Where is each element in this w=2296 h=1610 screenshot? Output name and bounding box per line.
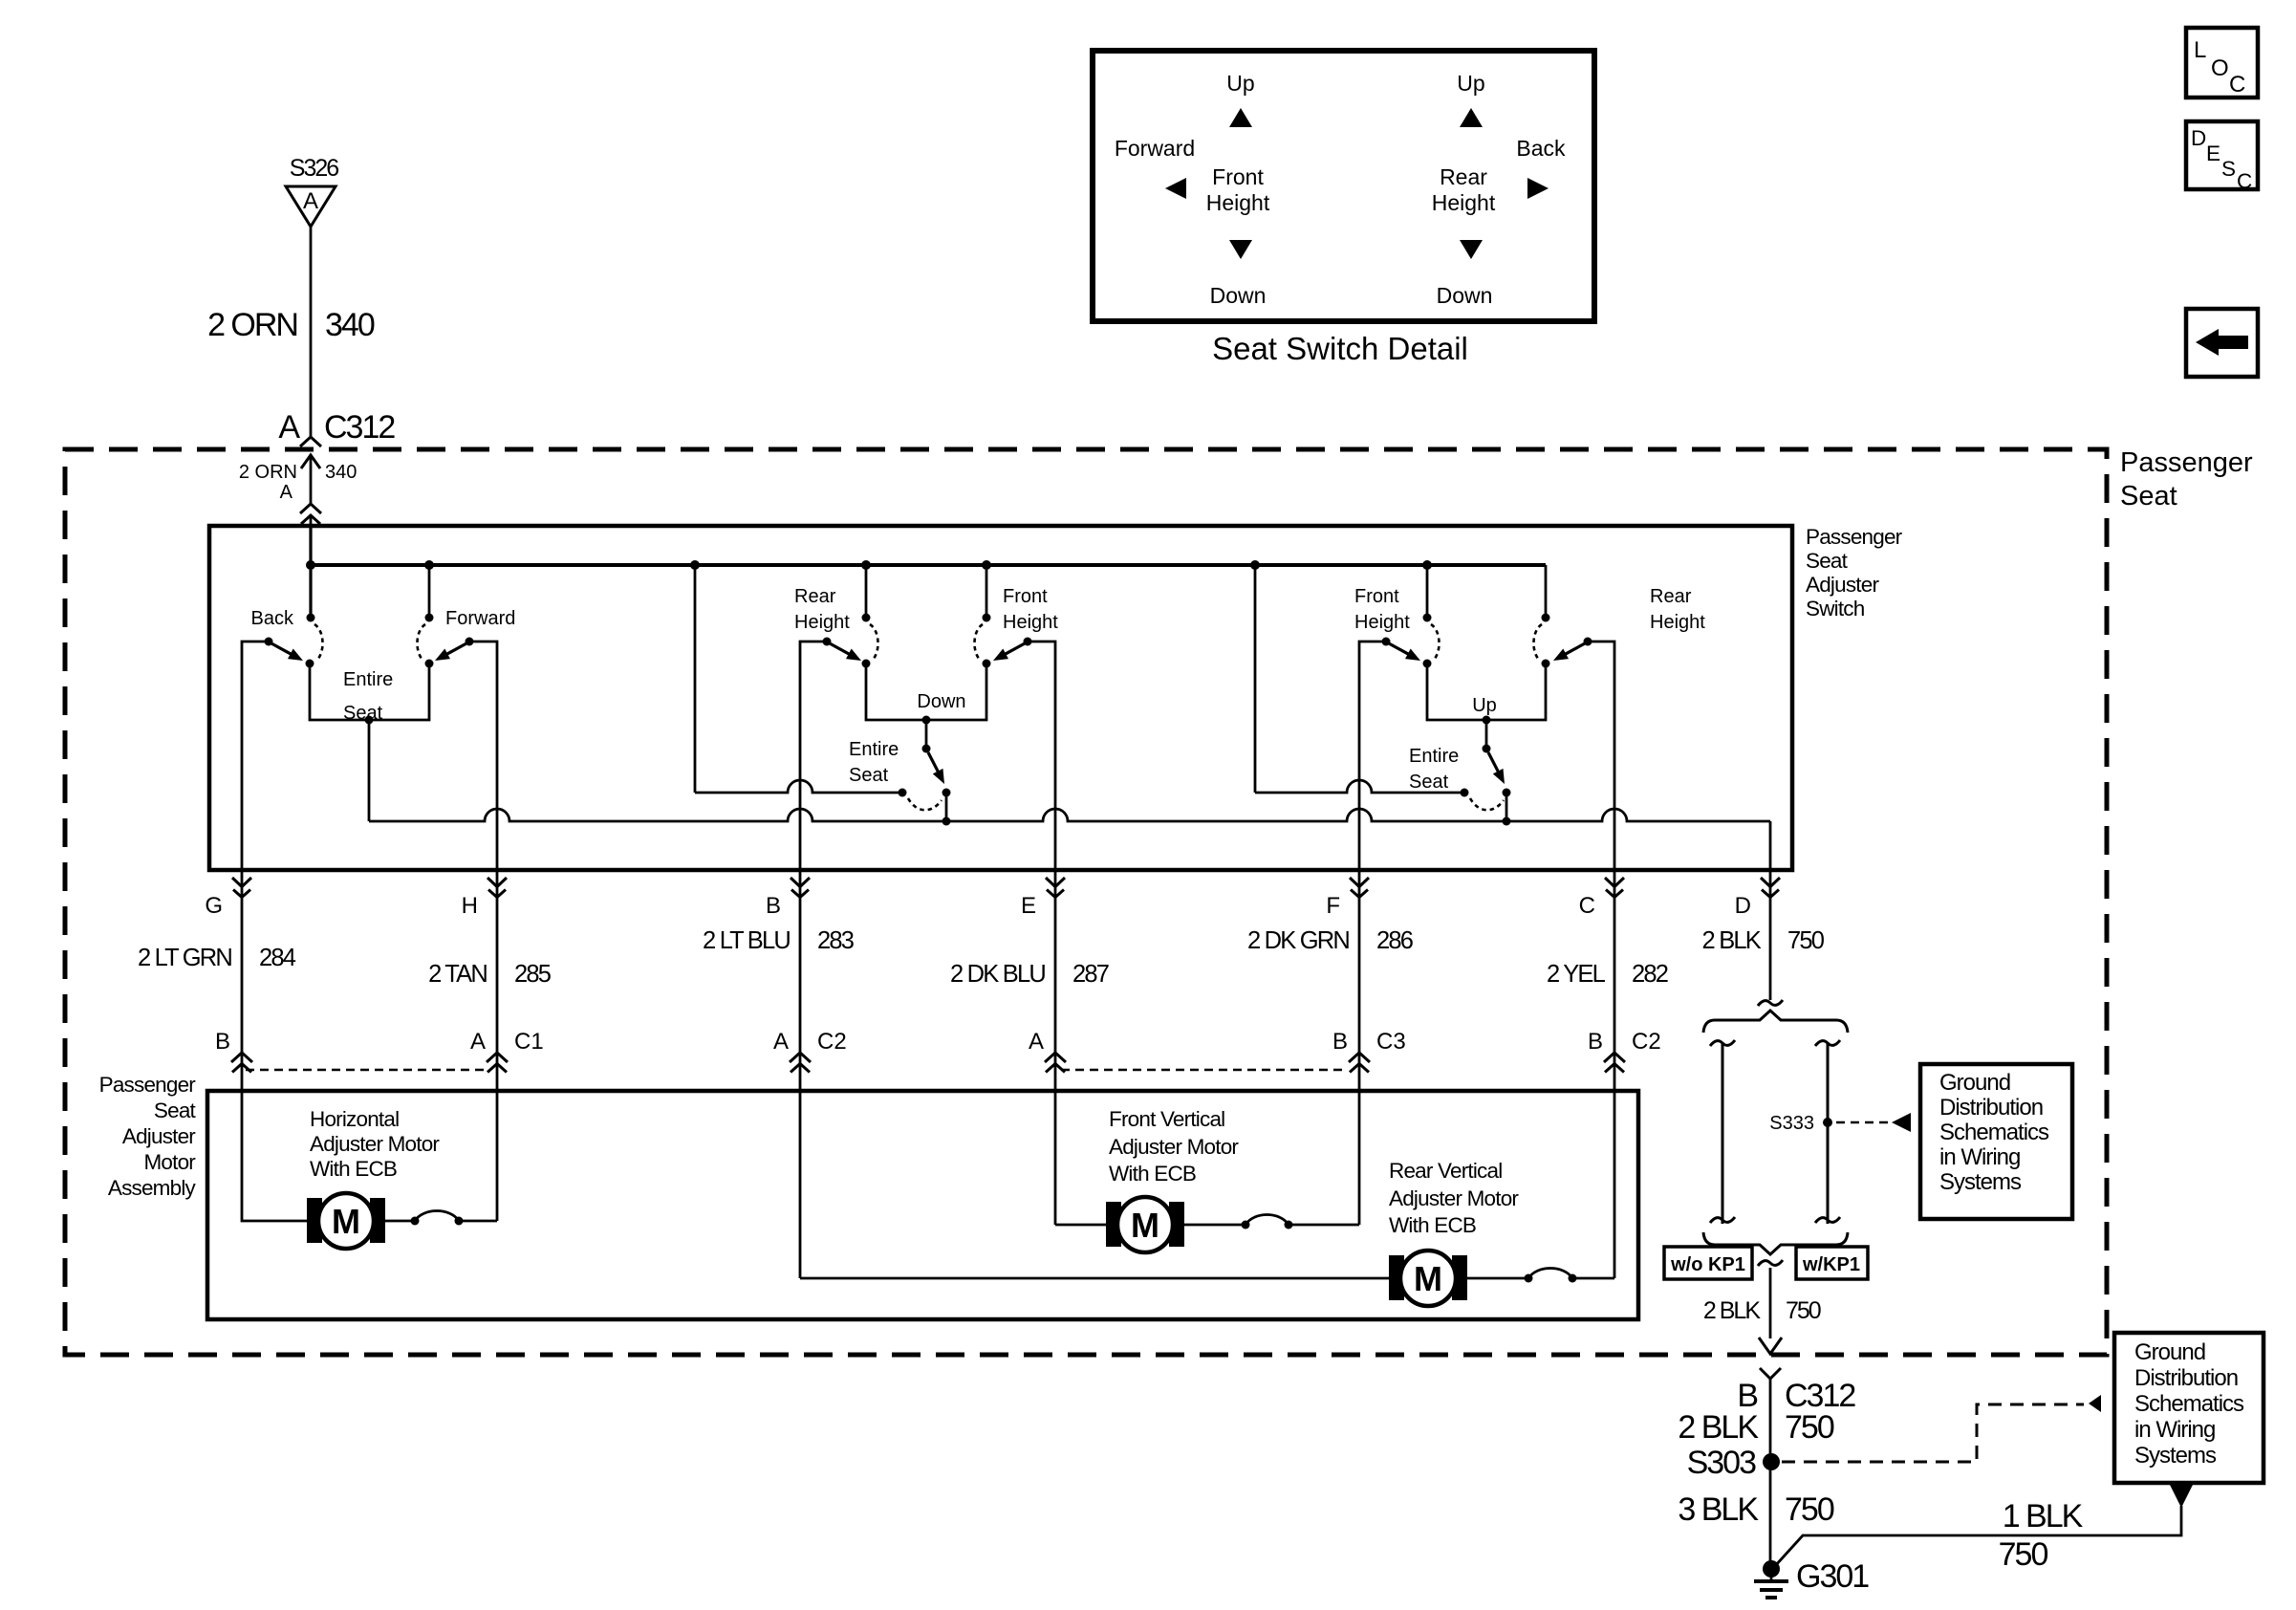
svg-text:Passenger: Passenger <box>1806 525 1903 549</box>
ground distribution schematics box (S333) <box>1920 1064 2072 1219</box>
svg-text:With ECB: With ECB <box>310 1157 397 1181</box>
svg-text:Adjuster: Adjuster <box>1806 573 1879 597</box>
svg-text:Back: Back <box>1516 136 1566 161</box>
splice S333 dot <box>1823 1118 1832 1127</box>
entire seat bar (section 1) <box>310 664 429 720</box>
svg-text:Seat Switch Detail: Seat Switch Detail <box>1212 331 1468 366</box>
svg-text:in Wiring: in Wiring <box>2134 1417 2215 1443</box>
svg-text:Forward: Forward <box>1115 136 1195 161</box>
icon box back-arrow <box>2186 309 2258 377</box>
svg-text:Distribution: Distribution <box>2134 1365 2238 1391</box>
svg-text:Height: Height <box>794 612 850 633</box>
option box w/KP1 <box>1796 1247 1868 1279</box>
svg-text:287: 287 <box>1072 961 1109 988</box>
svg-text:M: M <box>332 1202 360 1241</box>
svg-text:Adjuster Motor: Adjuster Motor <box>1109 1135 1239 1159</box>
horizontal adjuster motor symbol M <box>307 1198 322 1243</box>
svg-text:C312: C312 <box>324 409 395 446</box>
horizontal adjuster circuit breaker (ECB) <box>411 1217 420 1226</box>
Rear Height pivot dot (section 3) <box>1542 614 1550 622</box>
Down bar center dot <box>922 716 931 725</box>
passenger seat adjuster motor assembly box <box>207 1091 1638 1319</box>
svg-text:3 BLK: 3 BLK <box>1678 1491 1759 1528</box>
lower brace (splice options) <box>1703 1232 1848 1254</box>
svg-text:Seat: Seat <box>2120 481 2177 511</box>
svg-text:Down: Down <box>1437 283 1493 308</box>
svg-text:Passenger: Passenger <box>2120 447 2253 478</box>
section 2 feed wire from bus <box>694 565 697 793</box>
svg-text:With ECB: With ECB <box>1389 1213 1476 1237</box>
Back switch arm <box>271 643 293 655</box>
S333 reference dashed arrow <box>1836 1121 1890 1124</box>
svg-text:G: G <box>205 893 223 919</box>
detail down arrow (rear) <box>1460 240 1483 259</box>
svg-text:Seat: Seat <box>1409 772 1449 793</box>
Up pivot dot <box>1483 745 1491 753</box>
Front Height wiper dashed arc <box>974 624 983 661</box>
svg-text:Distribution: Distribution <box>1939 1095 2043 1120</box>
entire seat dashed arc (section 2) <box>908 798 942 810</box>
svg-text:Height: Height <box>1003 612 1058 633</box>
common return wire to terminal D <box>369 809 1770 821</box>
rear vertical adjuster motor symbol M <box>1389 1255 1404 1300</box>
svg-text:Forward: Forward <box>445 608 515 629</box>
wire ECB to F <box>1289 1224 1359 1227</box>
splice S303 <box>1763 1453 1780 1470</box>
entire seat dashed arc (section 3) <box>1470 798 1504 810</box>
svg-text:Passenger: Passenger <box>99 1073 197 1097</box>
svg-text:w/KP1: w/KP1 <box>1802 1254 1860 1275</box>
svg-text:284: 284 <box>259 945 296 971</box>
svg-text:Seat: Seat <box>154 1099 197 1122</box>
svg-text:Front: Front <box>1354 586 1399 607</box>
wire G into horizontal motor <box>242 870 307 1221</box>
wire 2 BLK 750 (below options) <box>1769 1268 1772 1338</box>
Rear Height contact dot (section 3) <box>1542 660 1550 668</box>
svg-text:2 DK BLU: 2 DK BLU <box>950 961 1045 988</box>
wire entire-seat output (section 1) <box>368 720 371 821</box>
svg-text:Adjuster Motor: Adjuster Motor <box>1389 1186 1519 1210</box>
svg-text:C2: C2 <box>817 1029 847 1055</box>
svg-text:D: D <box>1735 893 1751 919</box>
svg-text:Systems: Systems <box>2134 1443 2217 1469</box>
motor connector chevrons at G wire <box>231 1053 252 1062</box>
wire motor to ECB <box>384 1220 415 1223</box>
bus wire <box>309 563 1546 567</box>
svg-text:A: A <box>278 409 300 446</box>
svg-text:C3: C3 <box>1376 1029 1406 1055</box>
svg-text:Back: Back <box>251 608 294 629</box>
svg-text:2 ORN: 2 ORN <box>207 307 297 343</box>
svg-text:Height: Height <box>1650 612 1705 633</box>
wire break squiggle (D wire top) <box>1758 1000 1783 1006</box>
svg-text:E: E <box>1021 893 1036 919</box>
svg-text:Up: Up <box>1472 695 1497 716</box>
Up bar center dot <box>1483 716 1491 725</box>
Up bar (section 3) <box>1427 664 1546 720</box>
terminal C exit chevrons <box>1605 878 1624 887</box>
svg-text:A: A <box>280 482 293 503</box>
Rear Height stub wire (section 3) <box>1545 565 1548 618</box>
Up switch arm <box>1488 752 1500 773</box>
svg-text:H: H <box>462 893 478 919</box>
svg-text:750: 750 <box>1785 1409 1834 1446</box>
splice symbol S326 <box>286 186 336 227</box>
detail up arrow (rear) <box>1460 108 1483 127</box>
icon box DESC <box>2186 121 2258 189</box>
motor connector chevrons at F wire <box>1349 1053 1370 1062</box>
svg-text:2 ORN: 2 ORN <box>239 462 297 483</box>
svg-text:340: 340 <box>325 462 357 483</box>
Front Height stub wire (section 3) <box>1426 565 1429 618</box>
svg-text:Rear Vertical: Rear Vertical <box>1389 1159 1502 1183</box>
svg-text:Switch: Switch <box>1806 597 1865 620</box>
svg-text:B: B <box>215 1029 230 1055</box>
entire seat bar center dot <box>365 716 374 725</box>
svg-text:Height: Height <box>1432 190 1496 215</box>
Forward switch arm <box>445 643 467 655</box>
svg-text:2 TAN: 2 TAN <box>428 961 487 988</box>
svg-text:285: 285 <box>514 961 552 988</box>
svg-text:1 BLK: 1 BLK <box>2003 1498 2084 1534</box>
connector C1 dashed line <box>246 1069 484 1072</box>
svg-text:Down: Down <box>917 691 965 712</box>
Front Height contact dot <box>983 660 991 668</box>
svg-text:S333: S333 <box>1769 1113 1814 1134</box>
Front Height contact dot (section 3) <box>1423 660 1432 668</box>
Forward wiper dashed arc <box>417 624 425 661</box>
svg-text:A: A <box>470 1029 486 1055</box>
svg-text:Ground: Ground <box>1939 1070 2010 1096</box>
svg-text:A: A <box>1029 1029 1044 1055</box>
connector C3 dashed line <box>1061 1069 1346 1072</box>
svg-text:O: O <box>2211 55 2229 81</box>
terminal D exit chevrons <box>1761 878 1780 887</box>
svg-text:Entire: Entire <box>1409 746 1459 767</box>
w/o KP1 option bracket <box>1722 1042 1724 1224</box>
svg-text:283: 283 <box>817 927 855 954</box>
connector C312 chevron <box>300 437 321 446</box>
svg-text:Front Vertical: Front Vertical <box>1109 1107 1224 1131</box>
wire Front Height output to F <box>1359 642 1386 1225</box>
svg-text:Ground: Ground <box>2134 1339 2205 1365</box>
svg-text:Rear: Rear <box>1440 164 1487 189</box>
switch feed wire (B+ into bus) <box>309 526 312 618</box>
svg-text:2 BLK: 2 BLK <box>1678 1409 1759 1446</box>
Rear Height wiper dashed arc (section 3) <box>1533 624 1542 661</box>
passenger seat dashed boundary <box>65 449 2107 1355</box>
Down bar (section 2) <box>866 664 986 720</box>
wire 1 BLK 750 from ground distribution <box>2170 1485 2193 1508</box>
svg-text:w/o KP1: w/o KP1 <box>1670 1254 1745 1275</box>
detail left arrow <box>1165 178 1186 199</box>
option box w/o KP1 <box>1664 1247 1752 1279</box>
svg-text:750: 750 <box>1787 927 1825 954</box>
terminal G exit chevrons <box>232 878 251 887</box>
wire Up contact to common <box>1505 793 1508 821</box>
motor connector chevrons at E wire <box>1045 1053 1066 1062</box>
detail up arrow (front) <box>1229 108 1252 127</box>
Forward pivot dot <box>425 614 434 622</box>
ground G301 <box>1763 1560 1780 1577</box>
wire Back output to G <box>242 642 269 870</box>
wire motor to ECB (rear vertical) <box>1466 1277 1528 1280</box>
svg-text:Down: Down <box>1210 283 1267 308</box>
svg-text:Horizontal: Horizontal <box>310 1107 399 1131</box>
svg-text:2 BLK: 2 BLK <box>1702 927 1762 954</box>
Front Height pivot dot <box>983 614 991 622</box>
svg-text:Up: Up <box>1457 71 1484 96</box>
svg-text:in Wiring: in Wiring <box>1939 1144 2020 1170</box>
Rear Height contact dot <box>862 660 871 668</box>
svg-text:2 DK GRN: 2 DK GRN <box>1247 927 1349 954</box>
Up pivot wire <box>1485 720 1488 749</box>
motor connector chevrons at C wire <box>1604 1053 1625 1062</box>
svg-text:Seat: Seat <box>849 765 889 786</box>
Front Height pivot dot (section 3) <box>1423 614 1432 622</box>
wire E into front vertical motor <box>1055 1224 1106 1227</box>
svg-text:Height: Height <box>1354 612 1410 633</box>
svg-text:286: 286 <box>1376 927 1414 954</box>
Down pivot dot <box>922 745 931 753</box>
entire seat contact dot (section 2) <box>899 789 907 797</box>
wire Down contact to common <box>945 793 948 821</box>
svg-text:Assembly: Assembly <box>108 1176 197 1200</box>
Rear Height switch arm <box>830 643 852 655</box>
svg-text:Entire: Entire <box>849 739 899 760</box>
svg-text:Seat: Seat <box>1806 549 1849 573</box>
svg-text:Systems: Systems <box>1939 1169 2022 1195</box>
detail down arrow (front) <box>1229 240 1252 259</box>
Rear Height wiper dashed arc <box>870 624 878 661</box>
svg-text:A: A <box>303 188 318 214</box>
front vertical adjuster motor symbol M <box>1106 1202 1121 1247</box>
svg-text:2 LT BLU: 2 LT BLU <box>703 927 790 954</box>
svg-text:750: 750 <box>1999 1536 2048 1573</box>
svg-text:340: 340 <box>325 307 375 343</box>
bus junction dots <box>306 560 315 570</box>
svg-text:C: C <box>2237 169 2252 193</box>
svg-text:Adjuster: Adjuster <box>122 1124 196 1148</box>
svg-text:A: A <box>773 1029 789 1055</box>
wire 2 ORN 340 (into switch) with up arrow <box>301 455 320 468</box>
svg-text:C: C <box>1579 893 1595 919</box>
svg-text:Up: Up <box>1226 71 1254 96</box>
svg-text:Rear: Rear <box>1650 586 1692 607</box>
svg-text:750: 750 <box>1786 1297 1821 1324</box>
Forward contact dot <box>425 660 434 668</box>
svg-text:Adjuster Motor: Adjuster Motor <box>310 1132 440 1156</box>
wire 2 BLK 750 to S303 <box>1769 1379 1772 1569</box>
wire break squiggle (below brace) <box>1758 1260 1783 1266</box>
Down pivot wire <box>925 720 928 749</box>
Back wiper dashed arc <box>314 624 323 661</box>
motor connector chevrons at B wire <box>790 1053 811 1062</box>
wire Rear Height output to B <box>800 642 827 1278</box>
Back pivot dot <box>307 614 315 622</box>
svg-text:F: F <box>1326 893 1340 919</box>
Rear Height stub wire (section 2) <box>865 565 868 618</box>
terminal F exit chevrons <box>1350 878 1369 887</box>
svg-text:S303: S303 <box>1687 1445 1756 1481</box>
svg-text:Front: Front <box>1212 164 1264 189</box>
terminal B exit chevrons <box>791 878 810 887</box>
svg-text:S: S <box>2221 157 2235 181</box>
svg-text:With ECB: With ECB <box>1109 1162 1196 1186</box>
w/ KP1 option bracket <box>1827 1042 1830 1224</box>
Rear Height pivot dot <box>862 614 871 622</box>
svg-text:Front: Front <box>1003 586 1048 607</box>
svg-text:Motor: Motor <box>143 1150 196 1174</box>
Front Height switch arm (section 3) <box>1389 643 1411 655</box>
wire Forward output to H <box>469 642 497 1221</box>
svg-text:L: L <box>2194 37 2206 63</box>
Rear Height switch arm (section 3) <box>1564 643 1586 655</box>
rear vertical adjuster circuit breaker (ECB) <box>1525 1274 1533 1283</box>
svg-text:M: M <box>1131 1206 1159 1245</box>
upper brace (splice options) <box>1703 1011 1848 1033</box>
svg-text:282: 282 <box>1632 961 1668 988</box>
svg-text:750: 750 <box>1785 1491 1834 1528</box>
wire Rear Height output to C <box>1588 642 1614 1278</box>
svg-text:E: E <box>2206 141 2220 165</box>
connector C312 chevron (bottom) <box>1760 1368 1781 1379</box>
svg-text:G301: G301 <box>1796 1558 1869 1595</box>
Front Height wiper dashed arc (section 3) <box>1431 624 1440 661</box>
Back contact dot <box>306 660 314 668</box>
arrow head at passenger seat boundary <box>1759 1338 1782 1354</box>
wire motor to ECB (front vertical) <box>1183 1224 1245 1227</box>
section 3 feed wire from bus <box>1254 565 1257 793</box>
svg-text:S326: S326 <box>290 155 338 182</box>
svg-text:Height: Height <box>1206 190 1270 215</box>
svg-text:Schematics: Schematics <box>1939 1120 2049 1145</box>
switch connector double chevron <box>300 504 321 513</box>
svg-text:Entire: Entire <box>343 669 393 690</box>
terminal H exit chevrons <box>487 878 507 887</box>
detail right arrow <box>1527 178 1549 199</box>
svg-text:2 YEL: 2 YEL <box>1547 961 1606 988</box>
wire Front Height output to E <box>1028 642 1055 1225</box>
svg-text:2 BLK: 2 BLK <box>1703 1297 1761 1324</box>
svg-text:2 LT GRN: 2 LT GRN <box>138 945 231 971</box>
motor connector chevrons at H wire <box>487 1053 508 1062</box>
wire 2 ORN 340 (above C312) <box>310 227 313 436</box>
front vertical adjuster circuit breaker (ECB) <box>1242 1221 1250 1229</box>
Forward stub wire <box>428 565 431 618</box>
svg-text:B: B <box>1588 1029 1603 1055</box>
svg-text:Seat: Seat <box>343 703 383 724</box>
seat switch detail box <box>1093 51 1594 321</box>
svg-text:Schematics: Schematics <box>2134 1391 2244 1417</box>
svg-text:Rear: Rear <box>794 586 836 607</box>
entire seat contact dot (section 3) <box>1461 789 1469 797</box>
svg-text:D: D <box>2191 126 2206 150</box>
passenger seat adjuster switch box <box>209 526 1792 870</box>
wire B into rear vertical motor <box>800 1277 1389 1280</box>
svg-text:M: M <box>1414 1259 1442 1298</box>
Front Height stub wire (section 2) <box>986 565 988 618</box>
wire ECB to C <box>1572 1277 1614 1280</box>
S303 reference dashed route <box>1782 1404 2084 1462</box>
terminal E exit chevrons <box>1046 878 1065 887</box>
ground distribution schematics box (S303) <box>2114 1333 2264 1483</box>
Front Height switch arm <box>1004 643 1026 655</box>
icon box LOC <box>2186 28 2258 98</box>
svg-text:B: B <box>766 893 781 919</box>
svg-text:B: B <box>1332 1029 1348 1055</box>
Down switch arm <box>928 752 940 773</box>
svg-text:C2: C2 <box>1632 1029 1661 1055</box>
svg-text:C: C <box>2229 72 2245 98</box>
svg-text:C1: C1 <box>514 1029 544 1055</box>
wire ECB to H <box>459 1220 497 1223</box>
